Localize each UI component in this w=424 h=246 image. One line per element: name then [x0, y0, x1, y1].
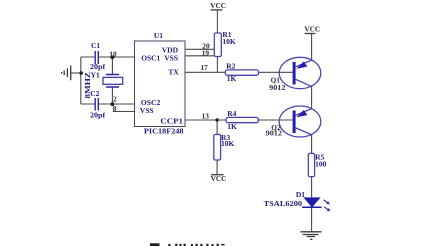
svg-text:D1: D1 — [296, 190, 305, 199]
svg-text:U1: U1 — [154, 31, 163, 40]
svg-text:VCC: VCC — [304, 24, 320, 33]
svg-text:10: 10 — [109, 50, 117, 59]
svg-text:VCC: VCC — [211, 174, 227, 183]
svg-text:20pf: 20pf — [90, 111, 106, 120]
svg-text:VSS: VSS — [164, 53, 178, 62]
svg-text:19: 19 — [202, 48, 210, 57]
svg-text:10K: 10K — [221, 139, 235, 148]
svg-text:8MHZ: 8MHZ — [83, 72, 92, 99]
svg-text:VCC: VCC — [210, 1, 226, 10]
svg-text:Y1: Y1 — [91, 70, 100, 79]
svg-text:10K: 10K — [222, 37, 236, 46]
svg-text:2: 2 — [113, 94, 117, 103]
svg-text:R2: R2 — [226, 62, 235, 71]
svg-text:OSC1: OSC1 — [141, 53, 160, 62]
svg-text:9012: 9012 — [266, 129, 283, 138]
svg-text:1K: 1K — [227, 74, 237, 83]
svg-text:100: 100 — [315, 160, 327, 169]
svg-text:13: 13 — [202, 112, 210, 121]
svg-text:VSS: VSS — [140, 106, 154, 115]
svg-text:R4: R4 — [227, 109, 236, 118]
svg-text:C1: C1 — [91, 41, 100, 50]
svg-text:1K: 1K — [227, 122, 237, 131]
svg-text:CCP1: CCP1 — [160, 116, 183, 125]
svg-text:TSAL6200: TSAL6200 — [264, 199, 303, 208]
svg-text:8: 8 — [113, 104, 117, 113]
svg-text:17: 17 — [201, 63, 209, 72]
svg-text:PIC18F248: PIC18F248 — [144, 127, 184, 136]
svg-text:9012: 9012 — [269, 83, 286, 92]
svg-text:TX: TX — [168, 68, 179, 77]
